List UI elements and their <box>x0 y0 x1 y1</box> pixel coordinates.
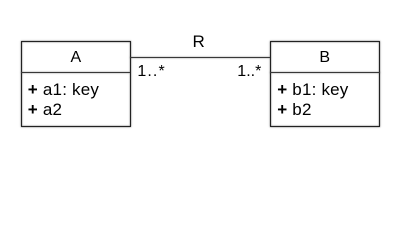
association name label "R" <box>193 33 205 50</box>
class A box <box>21 41 131 128</box>
class A name label "A" <box>21 50 131 66</box>
multiplicity 1..* at class A end <box>137 64 165 80</box>
class B name label "B" <box>269 50 380 66</box>
class B name compartment divider <box>270 72 380 73</box>
class B attribute 1 "b1: key" <box>292 81 348 98</box>
class A attribute 2 "a2" <box>43 101 62 118</box>
class A attribute 2 visibility "+" <box>28 101 38 118</box>
class A attribute 1 "a1: key" <box>43 81 99 98</box>
class B attribute 2 "b2" <box>292 101 311 118</box>
class A name compartment divider <box>21 72 130 73</box>
class B attribute 2 visibility "+" <box>277 101 287 118</box>
class B box <box>270 41 380 128</box>
class B attribute 1 visibility "+" <box>277 81 287 98</box>
association R line between class A and class B <box>130 57 270 58</box>
multiplicity 1..* at class B end <box>237 64 261 80</box>
class A attribute 1 visibility "+" <box>28 81 38 98</box>
